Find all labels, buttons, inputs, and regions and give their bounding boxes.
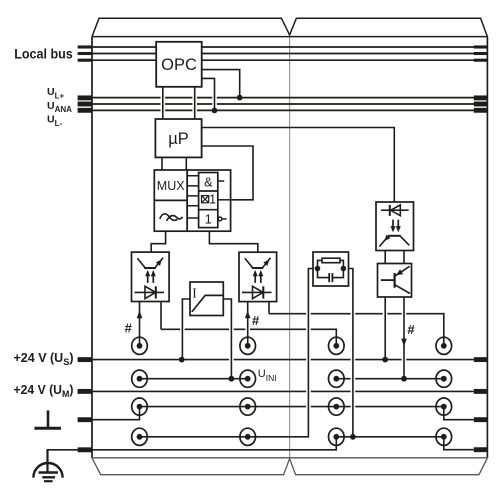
- wire node at y=314 to terminal D1: [269, 314, 444, 346]
- terminal A4: [132, 428, 148, 445]
- svg-text:#: #: [125, 320, 133, 335]
- phototransistor: [144, 267, 156, 269]
- terminal C3: [329, 398, 345, 415]
- filter node dots: [315, 266, 321, 272]
- wire optocoupler U2 right lead: [160, 302, 162, 330]
- wire uP to right optocoupler U4: [202, 128, 395, 203]
- terminal D4: [436, 428, 452, 445]
- terminal B4: [240, 428, 256, 445]
- UL+ power line: [92, 97, 487, 99]
- wire row2 right: terminal C2 to D2: [336, 378, 444, 380]
- light arrows down: [392, 220, 394, 227]
- node I-limiter/row2: [229, 376, 235, 382]
- terminal A2: [132, 370, 148, 387]
- optocoupler U2: [132, 252, 170, 301]
- optocoupler U4: [376, 202, 414, 251]
- wire current limiter right lead to row2 wire: [223, 299, 231, 379]
- +24V US rail: [92, 359, 474, 361]
- left rail bars: [78, 360, 92, 450]
- svg-text:MUX: MUX: [157, 179, 185, 193]
- wire transistor Q1 left leg to US rail: [384, 297, 386, 360]
- inverter output bubble: [218, 217, 222, 221]
- wire optocoupler U3 right lead: [268, 302, 270, 314]
- module separator (dash-dot center line): [289, 37, 291, 458]
- terminal C1: [329, 337, 345, 354]
- terminal B1: [240, 337, 256, 354]
- functional earth symbol: [34, 410, 61, 428]
- wire uP to MUX: [161, 157, 163, 170]
- wire optocoupler U2 to terminal A1: [139, 302, 141, 346]
- wire MUX to optocoupler U2: [151, 231, 165, 252]
- terminal D1: [436, 337, 452, 354]
- wire OPC to uP left: [162, 87, 164, 119]
- wire OPC to uP right: [194, 87, 196, 119]
- terminal A3: [132, 398, 148, 415]
- node Q1/row2: [401, 376, 407, 382]
- left bus connector bars: [78, 47, 92, 60]
- arrow into terminal B1: [245, 311, 251, 319]
- module body bottom edge: [92, 457, 487, 459]
- module body top edge: [92, 36, 487, 38]
- LED pointing left: [381, 209, 409, 211]
- wire OPC to UL- rail: [202, 78, 215, 110]
- right rail bars: [474, 360, 488, 450]
- AND gate output stub: [218, 180, 224, 182]
- microprocessor uP: [155, 119, 201, 157]
- wire node at y=329 to terminal C1: [161, 329, 336, 346]
- terminal circles: [132, 337, 452, 445]
- PE rail wire to earth symbol: [48, 437, 337, 473]
- wire filter right leg to row4: [343, 269, 353, 437]
- terminal C4: [329, 428, 345, 445]
- local bus line 3: [92, 59, 487, 61]
- svg-text:#: #: [407, 322, 415, 337]
- node filter/row4: [350, 434, 356, 440]
- current limiter block I: [190, 282, 223, 316]
- ground rail left stub + jog to terminal A3: [92, 407, 140, 420]
- XOR gate output stub: [218, 199, 231, 201]
- phototransistor: [388, 235, 401, 237]
- terminal B2: [240, 370, 256, 387]
- node Q1/US: [382, 357, 388, 363]
- svg-text:#: #: [252, 313, 260, 328]
- right supply connector bars: [474, 98, 488, 110]
- UANA power line: [92, 103, 487, 105]
- +24V UM rail: [92, 390, 474, 392]
- svg-text:&: &: [204, 175, 213, 190]
- light arrows up: [147, 276, 149, 283]
- wire row4 right: terminal C4 to D4: [336, 436, 444, 438]
- svg-text:Local bus: Local bus: [14, 46, 73, 62]
- wire current limiter left lead to US rail: [182, 299, 190, 360]
- node OPC/UL+: [237, 95, 243, 101]
- OPC block U1: [156, 42, 202, 87]
- logic gates block: [187, 170, 230, 231]
- wire uP feedback to XOR gate output: [202, 146, 253, 200]
- wire optocoupler U4 to transistor Q1: [385, 251, 404, 264]
- module case bottom lid: [92, 458, 487, 475]
- terminal D3: [436, 398, 452, 415]
- RC filter block: [313, 252, 349, 286]
- terminal C2: [329, 370, 345, 387]
- wire row2 left: terminal A2 to B2: [140, 378, 248, 380]
- wire optocoupler U3 to terminal B1: [247, 302, 249, 346]
- local bus line 2: [92, 53, 487, 55]
- module right edge: [486, 37, 488, 458]
- terminal A1: [132, 337, 148, 354]
- XOR symbol box with X: [202, 196, 209, 203]
- capacitor C1: [318, 269, 344, 278]
- module left edge: [91, 37, 93, 458]
- LED: [135, 291, 165, 293]
- arrow down on Q1 output: [401, 339, 407, 347]
- arrow into terminal A1: [137, 311, 143, 319]
- resistor R1: [322, 258, 340, 263]
- wire row4 left: terminal A4 to B4 to filter leg: [140, 269, 318, 437]
- gate input stubs: [187, 176, 198, 218]
- protective earth symbol: [33, 450, 62, 481]
- terminal D2: [436, 370, 452, 387]
- local bus line 1: [92, 46, 487, 48]
- UL- power line: [92, 109, 487, 111]
- wire OPC to UL+ rail: [202, 70, 240, 98]
- svg-text:1: 1: [209, 192, 216, 206]
- ground rail right stub from terminal D3: [444, 407, 474, 420]
- module case top lid: [92, 18, 487, 36]
- wire transistor Q1 right leg to row2: [403, 297, 405, 379]
- svg-text:I: I: [192, 286, 197, 301]
- left supply connector bars: [78, 98, 92, 110]
- analog sine symbol: [160, 214, 178, 220]
- terminal B3: [240, 398, 256, 415]
- optocoupler U3: [239, 252, 277, 301]
- svg-text:1: 1: [205, 211, 212, 226]
- wire row3: terminals A3 B3 C3 D3: [140, 406, 444, 408]
- MUX block: [154, 170, 187, 231]
- wire uP to logic block: [185, 157, 187, 170]
- transistor Q1: [378, 264, 412, 298]
- wire logic block to optocoupler U3: [209, 231, 257, 252]
- node I-limiter/US: [179, 357, 185, 363]
- node OPC/UL-: [212, 108, 218, 114]
- PE rail right stub from terminal D4: [444, 437, 474, 450]
- right bus connector bars: [474, 47, 488, 60]
- svg-text:OPC: OPC: [161, 56, 197, 74]
- svg-text:µP: µP: [168, 130, 189, 148]
- terminal center dots: [137, 343, 447, 440]
